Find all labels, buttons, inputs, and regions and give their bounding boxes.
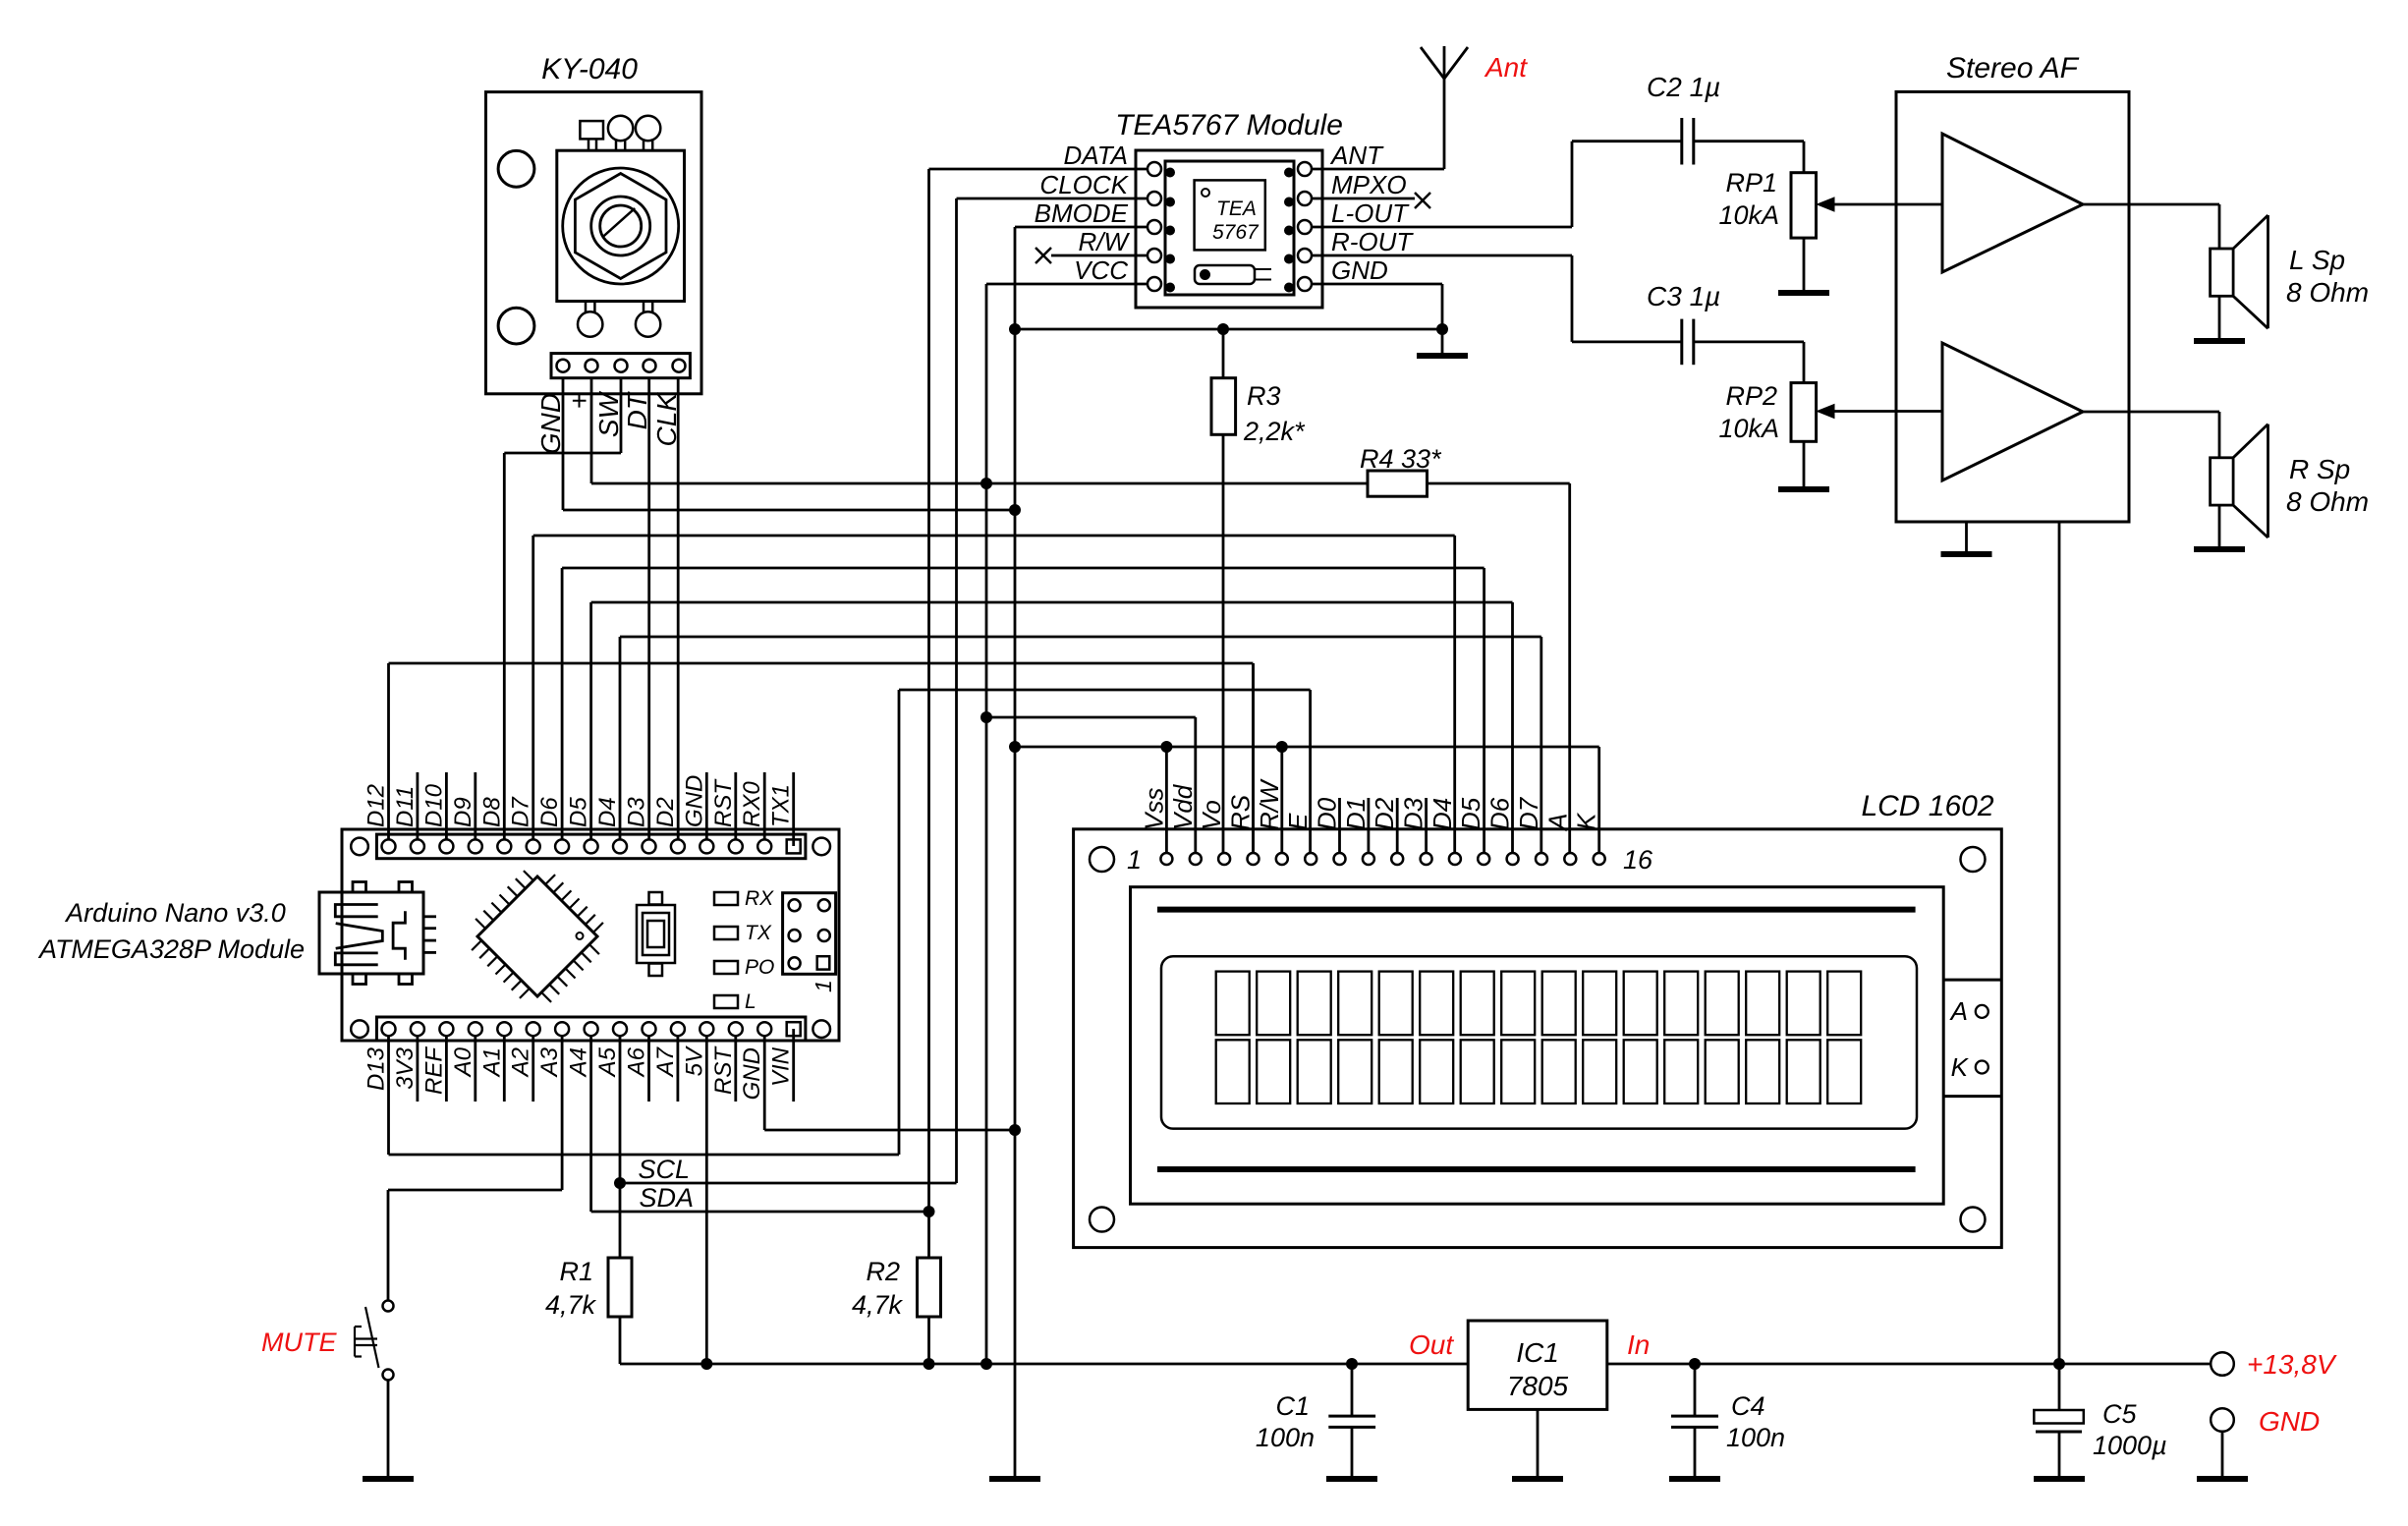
svg-text:GND: GND — [535, 393, 566, 454]
svg-text:A1: A1 — [478, 1047, 505, 1078]
svg-text:8 Ohm: 8 Ohm — [2286, 277, 2369, 308]
svg-text:R4 33*: R4 33* — [1360, 444, 1442, 474]
svg-text:R-OUT: R-OUT — [1331, 227, 1414, 256]
svg-text:D10: D10 — [420, 783, 447, 827]
svg-text:A2: A2 — [508, 1047, 534, 1078]
svg-text:GND: GND — [681, 775, 707, 827]
svg-text:C4: C4 — [1731, 1391, 1765, 1421]
svg-text:BMODE: BMODE — [1035, 198, 1129, 228]
svg-text:SW: SW — [593, 390, 624, 437]
svg-text:4,7k: 4,7k — [545, 1290, 597, 1320]
svg-text:LCD 1602: LCD 1602 — [1861, 790, 1993, 822]
svg-text:RP2: RP2 — [1725, 381, 1777, 411]
svg-text:8 Ohm: 8 Ohm — [2286, 486, 2369, 517]
svg-text:In: In — [1627, 1329, 1650, 1360]
svg-text:D5: D5 — [566, 797, 592, 827]
svg-text:D2: D2 — [652, 797, 679, 827]
svg-text:C3 1µ: C3 1µ — [1647, 281, 1720, 311]
svg-text:Stereo AF: Stereo AF — [1946, 52, 2080, 85]
svg-text:Ant: Ant — [1484, 52, 1528, 83]
svg-text:D12: D12 — [364, 784, 390, 827]
svg-text:TX1: TX1 — [768, 784, 795, 827]
svg-text:L-OUT: L-OUT — [1331, 198, 1410, 228]
svg-text:GND: GND — [739, 1047, 765, 1100]
svg-text:DT: DT — [622, 391, 652, 429]
svg-text:TEA5767 Module: TEA5767 Module — [1115, 109, 1343, 141]
svg-text:R/W: R/W — [1255, 778, 1284, 830]
svg-text:7805: 7805 — [1507, 1371, 1569, 1401]
svg-text:2,2k*: 2,2k* — [1243, 417, 1306, 446]
svg-text:E: E — [1283, 813, 1313, 830]
svg-text:DATA: DATA — [1064, 141, 1128, 170]
svg-text:RX: RX — [745, 887, 774, 910]
svg-text:1: 1 — [811, 980, 836, 992]
svg-text:SCL: SCL — [638, 1155, 690, 1184]
svg-text:CLOCK: CLOCK — [1039, 170, 1129, 199]
svg-text:100n: 100n — [1726, 1423, 1785, 1452]
svg-text:Vss: Vss — [1139, 788, 1168, 830]
svg-text:R1: R1 — [559, 1257, 593, 1286]
svg-text:MUTE: MUTE — [261, 1328, 337, 1357]
svg-text:5767: 5767 — [1212, 221, 1260, 244]
svg-text:K: K — [1951, 1052, 1970, 1082]
svg-text:VCC: VCC — [1074, 255, 1128, 285]
svg-text:D8: D8 — [478, 797, 505, 827]
svg-text:REF: REF — [420, 1046, 447, 1095]
svg-text:A4: A4 — [566, 1047, 592, 1078]
svg-text:3V3: 3V3 — [392, 1046, 419, 1089]
svg-text:+13,8V: +13,8V — [2247, 1349, 2337, 1380]
svg-text:R/W: R/W — [1078, 227, 1130, 256]
svg-text:R2: R2 — [866, 1257, 900, 1286]
svg-text:R Sp: R Sp — [2289, 454, 2350, 484]
svg-text:TX: TX — [745, 922, 772, 944]
svg-text:D9: D9 — [450, 797, 476, 827]
svg-text:Out: Out — [1409, 1329, 1454, 1360]
svg-text:A6: A6 — [624, 1046, 650, 1078]
svg-text:D0: D0 — [1313, 797, 1342, 830]
svg-text:1000µ: 1000µ — [2093, 1431, 2167, 1460]
svg-text:D4: D4 — [1428, 798, 1457, 830]
svg-text:C5: C5 — [2102, 1399, 2137, 1429]
svg-text:16: 16 — [1623, 845, 1653, 875]
svg-text:4,7k: 4,7k — [852, 1290, 904, 1320]
svg-text:A5: A5 — [594, 1046, 621, 1078]
svg-text:D3: D3 — [624, 797, 650, 827]
svg-text:D1: D1 — [1341, 798, 1371, 830]
svg-text:RST: RST — [710, 778, 737, 827]
svg-text:RX0: RX0 — [739, 781, 765, 827]
svg-text:ATMEGA328P Module: ATMEGA328P Module — [37, 934, 305, 964]
svg-text:Vo: Vo — [1197, 800, 1226, 830]
svg-text:IC1: IC1 — [1516, 1337, 1559, 1368]
svg-text:5V: 5V — [681, 1046, 707, 1076]
svg-text:100n: 100n — [1256, 1423, 1315, 1452]
svg-text:+: + — [564, 393, 594, 409]
svg-text:C1: C1 — [1275, 1391, 1310, 1421]
svg-text:D13: D13 — [364, 1046, 390, 1091]
svg-text:A: A — [1542, 814, 1572, 832]
svg-text:SDA: SDA — [639, 1183, 694, 1213]
svg-text:D2: D2 — [1370, 797, 1399, 830]
svg-text:Arduino Nano v3.0: Arduino Nano v3.0 — [64, 898, 286, 928]
svg-text:A7: A7 — [652, 1046, 679, 1078]
svg-text:A: A — [1949, 996, 1968, 1026]
svg-text:D7: D7 — [508, 796, 534, 827]
svg-text:PO: PO — [745, 956, 774, 979]
svg-text:KY-040: KY-040 — [541, 53, 638, 85]
svg-text:D5: D5 — [1456, 797, 1485, 830]
svg-text:RS: RS — [1226, 794, 1256, 830]
svg-text:ANT: ANT — [1329, 141, 1384, 170]
svg-text:1: 1 — [1127, 845, 1142, 875]
svg-text:RP1: RP1 — [1725, 168, 1777, 198]
svg-text:CLK: CLK — [651, 392, 682, 447]
svg-text:RST: RST — [710, 1046, 737, 1095]
svg-text:D6: D6 — [1485, 797, 1515, 830]
svg-text:D7: D7 — [1514, 796, 1543, 830]
svg-text:MPXO: MPXO — [1331, 170, 1407, 199]
svg-text:10kA: 10kA — [1718, 200, 1779, 230]
svg-text:D3: D3 — [1399, 797, 1428, 830]
svg-text:L: L — [745, 990, 756, 1013]
svg-text:10kA: 10kA — [1718, 414, 1779, 443]
svg-text:D11: D11 — [392, 786, 419, 827]
svg-text:Vdd: Vdd — [1168, 783, 1198, 830]
svg-text:A3: A3 — [536, 1046, 563, 1078]
svg-text:R3: R3 — [1247, 381, 1281, 411]
svg-text:GND: GND — [1331, 255, 1388, 285]
svg-text:VIN: VIN — [768, 1046, 795, 1087]
svg-text:TEA: TEA — [1216, 198, 1257, 220]
svg-text:D6: D6 — [536, 797, 563, 827]
svg-text:A0: A0 — [450, 1046, 476, 1078]
svg-text:D4: D4 — [594, 797, 621, 827]
svg-text:GND: GND — [2259, 1406, 2320, 1437]
svg-text:K: K — [1572, 812, 1601, 830]
svg-text:L Sp: L Sp — [2289, 245, 2345, 275]
svg-text:C2 1µ: C2 1µ — [1647, 72, 1720, 102]
